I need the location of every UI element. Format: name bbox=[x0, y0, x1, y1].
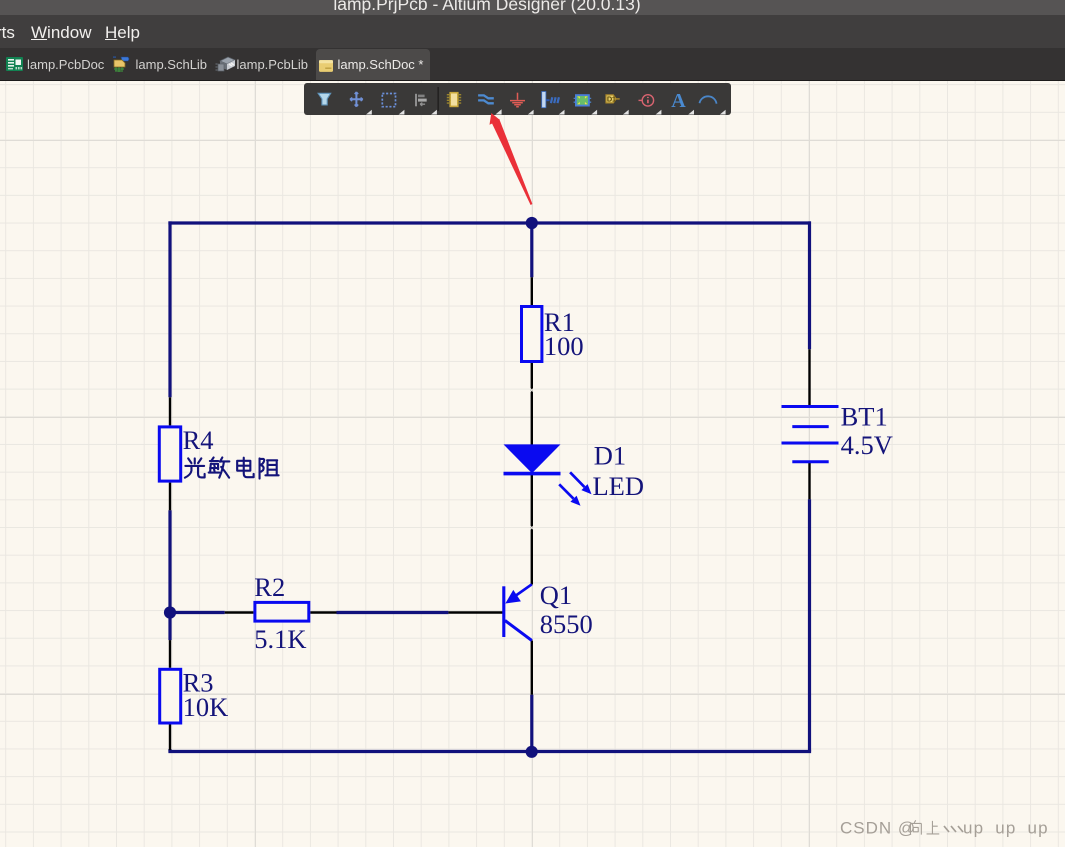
pin R4-2 bbox=[169, 483, 171, 511]
icon wire tool bbox=[478, 95, 494, 103]
pin BT1 plus bbox=[808, 349, 810, 406]
pin R3-2 bbox=[169, 725, 171, 751]
wire base branch bbox=[170, 611, 448, 614]
dropdown triangles bbox=[366, 109, 726, 114]
icon select dashed box bbox=[382, 94, 395, 107]
icon place part yellow chip bbox=[447, 93, 461, 107]
icon part D1 tag bbox=[606, 94, 620, 103]
wire left rail lower corner bbox=[168, 749, 171, 752]
battery BT1 bbox=[782, 407, 839, 462]
svg-text:4.5V: 4.5V bbox=[841, 430, 893, 460]
wire R1 branch top bbox=[530, 223, 533, 277]
svg-text:R4: R4 bbox=[183, 425, 214, 455]
transistor Q1 bbox=[504, 584, 532, 640]
wire top rail bbox=[168, 221, 811, 224]
svg-text:BT1: BT1 bbox=[841, 402, 888, 432]
icon ground bbox=[510, 93, 525, 107]
wire right rail upper bbox=[808, 221, 811, 349]
svg-text:Q1: Q1 bbox=[540, 580, 572, 610]
svg-text:5.1K: 5.1K bbox=[254, 624, 306, 654]
icon bus bbox=[542, 92, 559, 108]
separator bbox=[437, 87, 439, 111]
diode D1 LED bbox=[504, 444, 592, 505]
junction bottom bbox=[526, 746, 538, 758]
tab icon PcbDoc bbox=[6, 56, 23, 72]
active tab background bbox=[316, 49, 430, 80]
annotation arrow bbox=[490, 113, 533, 205]
svg-text:up up up: up up up bbox=[963, 819, 1049, 838]
pin BT1 minus bbox=[808, 462, 810, 500]
pin R4-1 bbox=[169, 397, 171, 425]
tab bar bbox=[0, 48, 1065, 81]
tab icon PcbLib bbox=[215, 55, 236, 74]
svg-text:D1: D1 bbox=[594, 441, 626, 471]
svg-text:A: A bbox=[671, 90, 686, 112]
svg-text:D1: D1 bbox=[607, 94, 616, 103]
wire right rail lower bbox=[808, 499, 811, 751]
junction top bbox=[526, 217, 538, 229]
pin R1-1 bbox=[531, 277, 533, 305]
pin R2-1 bbox=[225, 611, 254, 613]
pin R2-2 bbox=[310, 611, 336, 613]
label photoresistor chinese guang-min-dian-zu bbox=[185, 457, 279, 478]
svg-text:CSDN @: CSDN @ bbox=[840, 819, 916, 838]
tab icon SchLib bbox=[112, 55, 132, 74]
svg-text:100: 100 bbox=[544, 331, 584, 361]
icon info circle bbox=[639, 95, 654, 106]
wire left rail upper bbox=[168, 221, 171, 397]
pin R1-2 and D1 anode bbox=[531, 363, 533, 445]
svg-text:LED: LED bbox=[593, 471, 645, 501]
pin Q1 base bbox=[448, 611, 503, 613]
svg-text:R2: R2 bbox=[254, 572, 285, 602]
junction left bbox=[164, 606, 176, 618]
icon move cross bbox=[350, 92, 363, 107]
svg-text:8550: 8550 bbox=[540, 609, 593, 639]
icon sheet symbol green chip bbox=[574, 95, 592, 106]
resistor R1 bbox=[522, 307, 542, 362]
svg-text:10K: 10K bbox=[183, 692, 229, 722]
icon arc bbox=[700, 96, 717, 103]
wire bottom rail bbox=[168, 750, 811, 753]
pin end markers bbox=[530, 388, 534, 530]
toolbar bbox=[304, 83, 731, 115]
wire emitter to bottom bbox=[530, 695, 533, 752]
pin Q1 collector bbox=[531, 641, 533, 695]
icon align bbox=[415, 94, 427, 107]
resistor R2 bbox=[255, 602, 309, 621]
wire left rail middle bbox=[168, 510, 171, 640]
resistor R4 bbox=[159, 427, 180, 481]
red annotation arrow bbox=[470, 100, 550, 215]
pin R3-1 bbox=[169, 640, 171, 668]
watermark bbox=[840, 819, 1049, 838]
pin D1 cathode and Q1 emitter bbox=[531, 474, 533, 585]
title bar bbox=[0, 0, 1065, 15]
resistor R3 bbox=[160, 669, 181, 723]
tab icon SchDoc + label bbox=[319, 60, 333, 72]
icon filter funnel bbox=[318, 93, 331, 105]
menu bar bbox=[0, 15, 1065, 48]
